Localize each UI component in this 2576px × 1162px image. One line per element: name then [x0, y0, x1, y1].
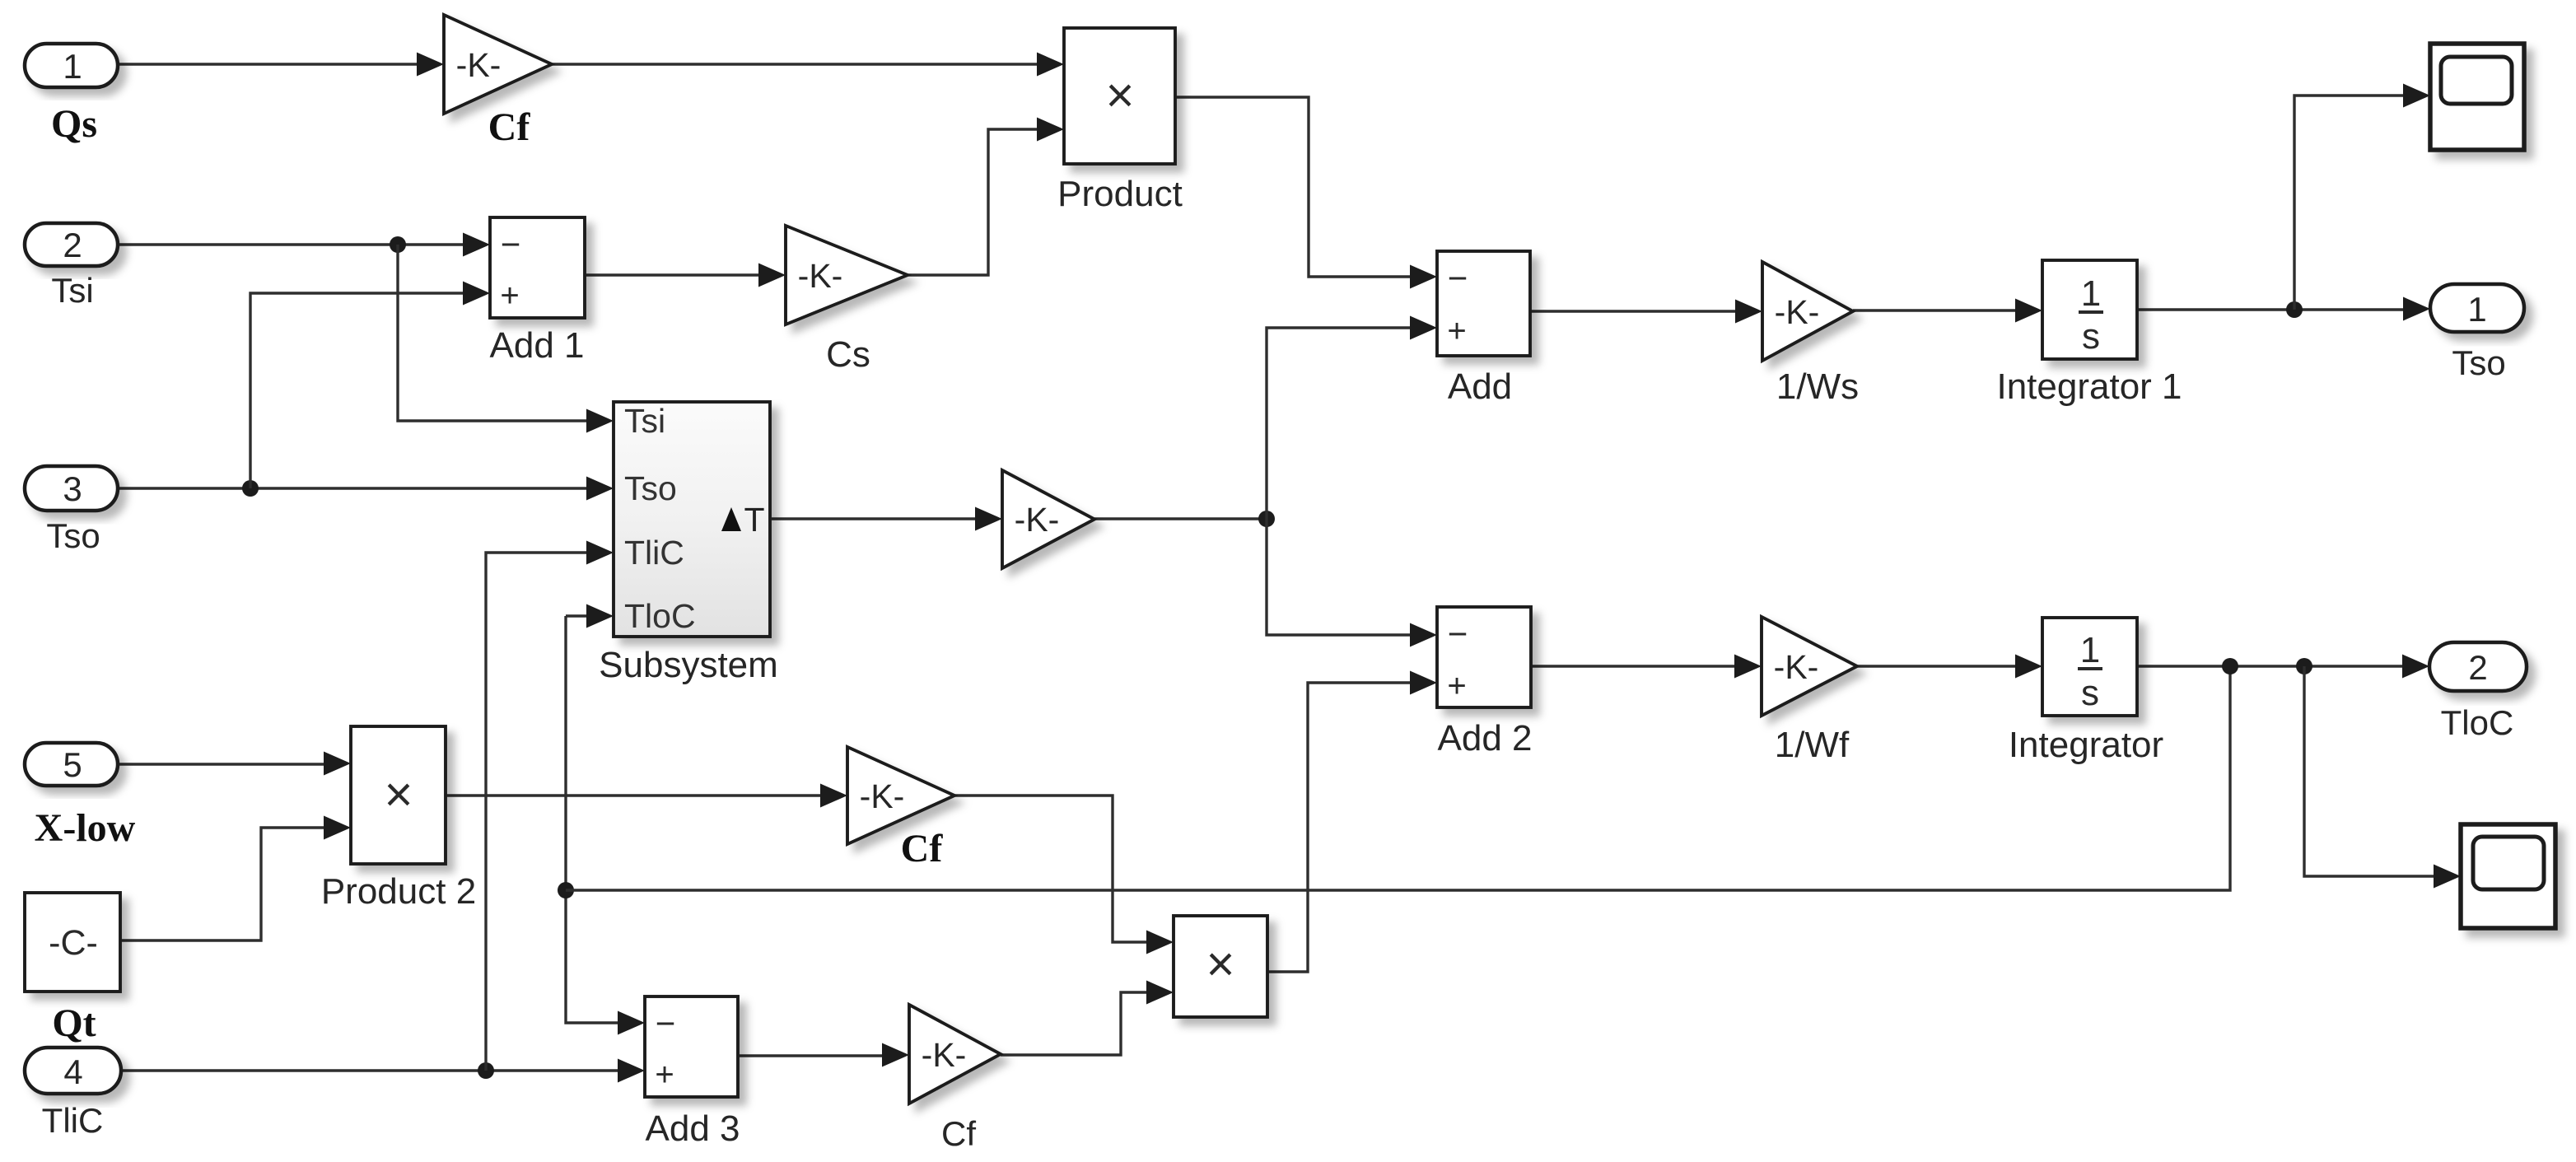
svg-text:−: −: [656, 1004, 676, 1043]
junction 1 on Integrator output: [2222, 658, 2238, 674]
svg-text:Qs: Qs: [51, 102, 97, 146]
wire Product 1 to Add 2 plus input: [1267, 683, 1412, 972]
svg-text:TliC: TliC: [624, 534, 684, 572]
label Cf bottom: [941, 1114, 976, 1153]
label Integrator: [2009, 725, 2163, 765]
arrowhead into Subsystem Tso: [586, 477, 614, 501]
gain 1/Wf: [1762, 617, 1857, 716]
wire branch Tso to Add 1 plus input: [250, 293, 465, 488]
wire TliC port to Add 3 plus input: [121, 1069, 620, 1071]
wire Tso port to Subsystem Tso input: [118, 487, 589, 489]
integrator Integrator 1: [2042, 260, 2137, 359]
svg-text:5: 5: [63, 745, 82, 784]
arrowhead into gain Cf: [417, 53, 444, 77]
arrowhead into Scope 2: [2434, 865, 2461, 889]
arrowhead into outport TloC: [2402, 655, 2429, 679]
svg-text:1/Wf: 1/Wf: [1775, 725, 1850, 765]
svg-text:Cf: Cf: [901, 827, 944, 870]
svg-text:+: +: [655, 1057, 674, 1093]
svg-text:Cf: Cf: [488, 105, 531, 149]
product Product 1: [1174, 916, 1267, 1017]
svg-text:Integrator 1: Integrator 1: [1996, 366, 2182, 407]
svg-text:s: s: [2081, 673, 2099, 713]
wire Product to Add minus input: [1175, 97, 1412, 277]
wire Integrator to outport TloC: [2137, 665, 2405, 667]
junction on TliC wire: [478, 1062, 494, 1079]
label Cf middle: [901, 827, 944, 870]
label Tsi: [51, 271, 93, 310]
svg-text:Subsystem: Subsystem: [599, 645, 778, 685]
wire gain Cs to Product input 2: [908, 129, 1039, 275]
wire Subsystem T output to gain -K-: [772, 517, 978, 520]
label Cf top: [488, 105, 531, 149]
junction on -K- output: [1258, 511, 1275, 527]
svg-text:1: 1: [2080, 630, 2100, 670]
label Add: [1448, 366, 1512, 407]
svg-text:−: −: [501, 225, 521, 264]
wire gain -K- output to junction: [1094, 517, 1267, 520]
label 1/Wf: [1775, 725, 1850, 765]
gain Cs: [786, 226, 908, 324]
arrowhead into gain Cf bottom: [882, 1043, 909, 1067]
svg-text:+: +: [1447, 313, 1466, 349]
arrowhead into gain Cf middle: [820, 784, 847, 808]
wire branch up to Scope 1: [2294, 96, 2406, 310]
wire TloC feedback long horizontal from Integrator output: [566, 666, 2230, 890]
svg-text:×: ×: [1206, 936, 1234, 992]
wire Add 3 to gain Cf bottom: [738, 1054, 884, 1057]
arrowhead into Add minus: [1410, 265, 1437, 289]
wire gain Cf middle to Product 1 input 1: [954, 796, 1149, 942]
sum Add 2: [1437, 607, 1531, 707]
arrowhead into Product input 2: [1037, 118, 1064, 142]
wire branch Tsi to Subsystem Tsi input: [398, 245, 589, 421]
wire constant Qt to Product 2 input 2: [120, 828, 326, 940]
svg-text:TloC: TloC: [624, 597, 696, 635]
inport 4: [25, 1048, 121, 1094]
svg-text:-K-: -K-: [860, 777, 905, 815]
svg-text:Tso: Tso: [2452, 343, 2505, 382]
svg-text:TliC: TliC: [42, 1101, 104, 1140]
wire branch junction down to Add 2 minus input: [1267, 519, 1412, 635]
svg-text:3: 3: [63, 469, 82, 508]
wire branch TliC up to Subsystem TliC input: [486, 553, 589, 1071]
sum Add: [1437, 251, 1530, 356]
gain 1/Ws: [1762, 262, 1853, 361]
svg-text:Cs: Cs: [826, 334, 870, 375]
arrowhead into Add 2 plus: [1410, 671, 1437, 695]
wire Add to gain 1/Ws: [1530, 310, 1738, 312]
arrowhead into Add 1 minus: [463, 233, 490, 257]
svg-text:-C-: -C-: [49, 923, 98, 963]
label X-low: [35, 806, 136, 850]
svg-text:Add 3: Add 3: [646, 1108, 740, 1149]
arrowhead into gain 1/Wf: [1734, 655, 1762, 679]
svg-text:-K-: -K-: [1775, 293, 1820, 331]
arrowhead into Add 2 minus: [1410, 623, 1437, 647]
junction on Tsi wire: [390, 236, 406, 253]
junction on TloC feedback: [558, 882, 574, 898]
arrowhead into Product 2 input 1: [324, 752, 351, 776]
svg-text:Product: Product: [1057, 174, 1183, 214]
svg-text:1/Ws: 1/Ws: [1776, 366, 1859, 407]
wire Product 2 to gain Cf middle: [446, 794, 823, 796]
label Integrator 1: [1996, 366, 2182, 407]
wire gain Cf to Product input 1: [552, 63, 1039, 65]
label Add 1: [490, 325, 585, 366]
arrowhead into Add 3 minus: [618, 1011, 645, 1035]
arrowhead into Integrator: [2015, 655, 2042, 679]
wire branch down to Scope 2: [2304, 666, 2436, 876]
wire Add 1 to gain Cs: [585, 273, 762, 276]
inport 1: [25, 44, 118, 87]
inport 5: [25, 743, 118, 786]
wire gain Cf bottom to Product 1 input 2: [1001, 992, 1149, 1055]
outport 1: [2430, 284, 2524, 332]
scope Scope 1: [2430, 44, 2524, 150]
label TloC: [2441, 703, 2514, 742]
arrowhead into Product 1 input 1: [1146, 931, 1174, 954]
arrowhead into Subsystem TloC: [586, 604, 614, 628]
arrowhead into gain -K-: [975, 507, 1002, 531]
svg-text:+: +: [500, 278, 519, 314]
svg-text:Qt: Qt: [52, 1001, 96, 1045]
svg-text:-K-: -K-: [456, 46, 502, 84]
svg-text:Add 2: Add 2: [1438, 718, 1533, 758]
arrowhead into Product 2 input 2: [324, 816, 351, 840]
wire branch junction up to Add plus input: [1267, 328, 1412, 519]
integrator Integrator: [2042, 618, 2137, 716]
arrowhead into Product 1 input 2: [1146, 981, 1174, 1005]
svg-text:-K-: -K-: [1015, 501, 1060, 539]
svg-text:2: 2: [63, 226, 82, 264]
junction 2 on Integrator output: [2296, 658, 2312, 674]
svg-text:Tso: Tso: [624, 469, 677, 507]
label Product: [1057, 174, 1183, 214]
wire gain 1/Wf to Integrator: [1857, 665, 2018, 667]
arrowhead into Add 3 plus: [618, 1059, 645, 1083]
label Subsystem: [599, 645, 778, 685]
gain Cf top: [444, 15, 552, 114]
scope Scope 2: [2461, 824, 2555, 928]
label Qt: [52, 1001, 96, 1045]
label Tso left: [46, 516, 100, 555]
svg-text:−: −: [1448, 259, 1468, 297]
svg-text:1: 1: [2081, 273, 2101, 314]
label TliC: [42, 1101, 104, 1140]
wire TloC feedback vertical to Subsystem TloC input and Add 3 minus input: [566, 616, 620, 1023]
svg-text:Tso: Tso: [46, 516, 100, 555]
svg-text:T: T: [744, 501, 764, 539]
label 1/Ws: [1776, 366, 1859, 407]
svg-text:-K-: -K-: [1774, 648, 1819, 686]
svg-text:s: s: [2082, 316, 2100, 357]
arrowhead into gain 1/Ws: [1735, 300, 1762, 324]
sum Add 3: [645, 996, 738, 1097]
constant Qt: [25, 893, 120, 992]
svg-text:Tsi: Tsi: [624, 402, 665, 440]
svg-text:Cf: Cf: [941, 1114, 976, 1153]
wire Integrator 1 to outport Tso: [2137, 308, 2406, 310]
svg-text:Product 2: Product 2: [321, 871, 476, 912]
arrowhead into Integrator 1: [2015, 299, 2042, 323]
gain -K- middle: [1002, 470, 1094, 568]
subsystem Subsystem: [614, 402, 770, 637]
svg-text:2: 2: [2468, 648, 2487, 687]
arrowhead into gain Cs: [758, 264, 786, 287]
wire Qs to gain Cf: [118, 63, 422, 65]
outport 2: [2429, 642, 2527, 691]
svg-text:1: 1: [63, 47, 82, 86]
arrowhead into Scope 1: [2403, 84, 2430, 108]
arrowhead into Subsystem Tsi: [586, 409, 614, 433]
label Qs: [51, 102, 97, 146]
svg-text:Tsi: Tsi: [51, 271, 93, 310]
arrowhead into outport Tso: [2403, 297, 2430, 321]
svg-text:TloC: TloC: [2441, 703, 2514, 742]
label Add 3: [646, 1108, 740, 1149]
svg-text:+: +: [1447, 668, 1466, 704]
sum Add 1: [490, 217, 585, 318]
arrowhead into Product input 1: [1037, 53, 1064, 77]
svg-text:Add: Add: [1448, 366, 1512, 407]
arrowhead into Add plus: [1410, 316, 1437, 340]
arrowhead into Add 1 plus: [463, 282, 490, 306]
inport 3: [25, 466, 118, 511]
wire X-low port to Product 2 input 1: [118, 763, 326, 765]
arrowhead into Subsystem TliC: [586, 541, 614, 565]
svg-text:Add 1: Add 1: [490, 325, 585, 366]
label Cs: [826, 334, 870, 375]
svg-text:×: ×: [1105, 68, 1134, 123]
label Add 2: [1438, 718, 1533, 758]
product Product: [1064, 28, 1175, 164]
wire Tsi port to Add 1 minus input: [118, 243, 465, 245]
junction on Integrator 1 output: [2286, 301, 2303, 318]
svg-text:-K-: -K-: [922, 1036, 967, 1074]
svg-text:X-low: X-low: [35, 806, 136, 850]
label Tso right: [2452, 343, 2505, 382]
svg-text:1: 1: [2467, 290, 2486, 329]
inport 2: [25, 223, 118, 266]
svg-text:−: −: [1448, 614, 1468, 653]
svg-text:4: 4: [63, 1052, 82, 1091]
svg-text:Integrator: Integrator: [2009, 725, 2163, 765]
product Product 2: [351, 726, 446, 864]
gain Cf middle: [847, 747, 954, 844]
svg-text:-K-: -K-: [798, 257, 843, 295]
wire Add 2 to gain 1/Wf: [1531, 665, 1737, 667]
svg-text:×: ×: [384, 767, 413, 822]
gain Cf bottom: [909, 1005, 1001, 1104]
junction on Tso wire: [242, 480, 259, 497]
label Product 2: [321, 871, 476, 912]
wire gain 1/Ws to Integrator 1: [1853, 309, 2018, 311]
